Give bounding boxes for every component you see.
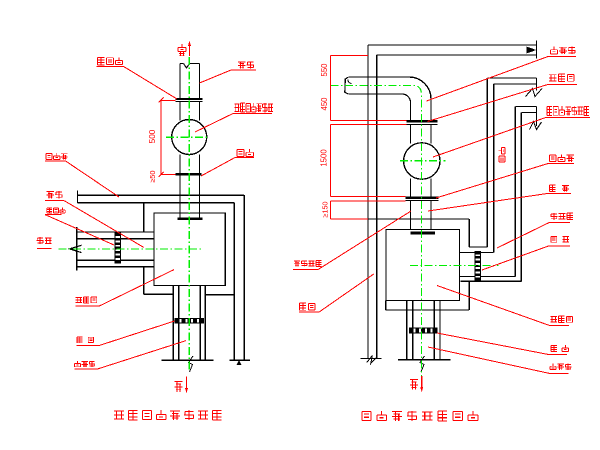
niche recess outline (right view) bbox=[368, 219, 488, 310]
label A11 hole with leader bbox=[45, 208, 114, 245]
label gas inlet bottom with down arrow (left) bbox=[174, 376, 188, 393]
flange below meter (right view) bbox=[406, 198, 439, 201]
vent pipe top section with break mark bbox=[180, 64, 200, 100]
label A6 heater with leader bbox=[76, 270, 174, 307]
pipe collar inside heater bbox=[177, 217, 202, 220]
water heater tank (right view) bbox=[386, 229, 460, 300]
rotated label riser text (right view) bbox=[499, 147, 506, 162]
caption: exposed installation plan (right) bbox=[362, 411, 478, 421]
label A8 union with leader bbox=[74, 341, 186, 369]
label M2 brick wall with leader bbox=[299, 274, 374, 312]
left wall double vertical (right view) bbox=[360, 45, 381, 364]
svg-text:450: 450 bbox=[320, 97, 329, 111]
label L10 union with leader bbox=[428, 347, 571, 373]
label A7 valve with leader bbox=[77, 321, 175, 346]
dimension stack left of right view bbox=[319, 56, 406, 219]
pipe segment F2 to heater bbox=[180, 176, 200, 219]
gas meter (round) right view bbox=[404, 143, 440, 179]
caption: concealed installation plan (left) bbox=[114, 410, 222, 420]
union hatched below heater (left) bbox=[175, 318, 205, 324]
label A4 cock valve with leader bbox=[201, 149, 254, 176]
svg-text:550: 550 bbox=[320, 63, 329, 77]
label A10 slab with leader bbox=[45, 191, 144, 248]
label roof-exit with up arrow bbox=[178, 41, 191, 57]
dimension 500 vertical (left view) bbox=[148, 97, 175, 177]
wall line upper (left view) bbox=[77, 191, 244, 203]
flange F1 on vent pipe bbox=[175, 99, 202, 102]
green centerline through meter (left view) bbox=[166, 136, 209, 138]
gas riser A broken at top (right view) bbox=[487, 78, 542, 253]
horizontal gas pipe with sleeve (left view) bbox=[77, 227, 154, 271]
pipe segment F1 to meter bbox=[180, 102, 200, 121]
union hatched at heater outlet (right side) bbox=[475, 251, 482, 281]
union hatched below heater (right) bbox=[409, 327, 438, 333]
flange below elbow (right view) bbox=[407, 121, 438, 124]
top wall double line (right view) bbox=[368, 41, 537, 59]
floor line and break (right view) bbox=[398, 356, 451, 372]
riser below heater (right view) bbox=[407, 301, 440, 360]
label L1 roof exit with leader bbox=[427, 47, 577, 101]
dimension >50 text (left view) bbox=[148, 170, 157, 182]
svg-text:≥50: ≥50 bbox=[148, 170, 157, 182]
label L4 cock with leader bbox=[436, 155, 574, 199]
label L6 pipe with leader bbox=[497, 213, 573, 248]
label A9 sleeve with leader bbox=[45, 153, 119, 197]
label L5 valve with leader bbox=[428, 185, 571, 211]
label A1 vent pipe with leader bbox=[97, 57, 177, 99]
pipe to heater (right view) bbox=[411, 200, 432, 229]
svg-text:1500: 1500 bbox=[319, 149, 328, 167]
label A2 pipe dia with leader bbox=[200, 61, 257, 83]
water heater tank (left view) bbox=[154, 213, 225, 285]
label L7 cock2 with leader bbox=[482, 236, 570, 270]
green centerline through meter (right view) bbox=[400, 160, 446, 162]
pipe collar inside heater (right view) bbox=[411, 232, 435, 235]
floor line and break (left view) bbox=[162, 356, 251, 372]
green centerline horizontal (left view) bbox=[58, 248, 201, 250]
label L2 service pipe with leader bbox=[428, 74, 578, 121]
pipe segment meter to F2 bbox=[180, 155, 200, 174]
wall vertical lines (left view) bbox=[234, 195, 244, 360]
label L8 heater with leader bbox=[437, 286, 572, 326]
gas meter (round) left view bbox=[172, 120, 207, 155]
green centerline inlet with elbow (right view) bbox=[330, 86, 421, 377]
svg-text:≥150: ≥150 bbox=[320, 202, 329, 218]
gas riser B broken at top (right view) bbox=[515, 107, 541, 282]
label A5 gas inlet bbox=[37, 237, 52, 248]
niche recess outline (left view) bbox=[144, 203, 234, 295]
union/coupling hatched on horizontal pipe bbox=[115, 233, 122, 264]
label A3 gas meter type with leader bbox=[195, 103, 273, 132]
label gas inlet bottom with down arrow (right) bbox=[410, 376, 423, 392]
pipe meter to flange (right view) bbox=[411, 179, 432, 197]
riser below heater (left view) bbox=[173, 285, 205, 360]
service inlet pipe with elbow (right view) bbox=[345, 77, 431, 121]
svg-text:500: 500 bbox=[148, 129, 157, 143]
label M1 gas riser with leader bbox=[293, 211, 411, 269]
label L9 valve2 with leader bbox=[437, 333, 568, 355]
label L3 meter type with leader bbox=[433, 106, 590, 157]
flow direction arrow bbox=[70, 245, 82, 252]
green centerline horizontal in heater (right view) bbox=[410, 265, 499, 267]
pipe segment to meter (right view) bbox=[411, 124, 432, 143]
green centerline vertical (left view) bbox=[188, 57, 190, 371]
connection pipe heater to risers bbox=[460, 253, 522, 282]
flange F2 below meter bbox=[175, 173, 201, 176]
